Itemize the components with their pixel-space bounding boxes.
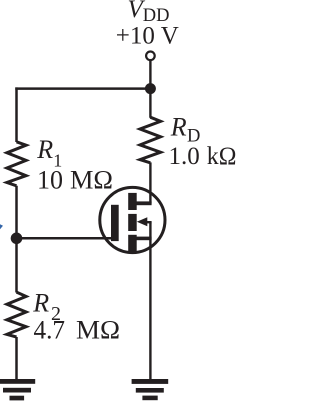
substrate arrow xyxy=(137,217,148,226)
svg-text:MΩ: MΩ xyxy=(76,316,120,345)
label VDD xyxy=(128,0,170,26)
wire top horizontal xyxy=(15,87,150,90)
wire arrow stub to source xyxy=(146,221,152,223)
svg-text:4.7: 4.7 xyxy=(34,316,66,345)
wire gate xyxy=(17,237,113,240)
svg-text:R: R xyxy=(170,113,187,142)
svg-text:1.0: 1.0 xyxy=(169,143,200,170)
wire left bottom vertical xyxy=(15,337,18,380)
svg-text:kΩ: kΩ xyxy=(207,143,236,170)
transistor Q1 channel top segment xyxy=(128,193,137,210)
label R2 value 4.7 Mohm xyxy=(34,316,121,345)
ground right xyxy=(132,379,169,400)
wire RD to drain xyxy=(149,162,151,203)
source connector xyxy=(137,237,152,241)
svg-text:10: 10 xyxy=(37,166,63,195)
resistor R2 xyxy=(7,292,26,337)
wire source vertical xyxy=(149,222,151,379)
wire left middle vertical xyxy=(15,186,18,293)
resistor R1 xyxy=(7,142,26,186)
label RD value 1.0 kohm xyxy=(169,143,237,170)
svg-text:MΩ: MΩ xyxy=(70,166,113,195)
label R1 xyxy=(36,135,62,170)
junction node gate xyxy=(11,233,23,245)
label R2 xyxy=(32,288,61,325)
junction node top xyxy=(145,83,156,94)
label VG fragment cut off at left edge xyxy=(0,224,3,229)
resistor RD xyxy=(140,117,161,163)
label RD xyxy=(170,113,201,147)
svg-text:R: R xyxy=(32,288,49,317)
svg-text:R: R xyxy=(36,135,53,164)
transistor Q1 channel bottom segment xyxy=(128,235,137,252)
ground left xyxy=(0,379,35,400)
svg-text:+10 V: +10 V xyxy=(116,23,179,50)
wire terminal to junction xyxy=(149,60,151,117)
transistor Q1 channel middle segment xyxy=(128,214,137,231)
terminal VDD supply xyxy=(146,52,155,61)
transistor Q1 gate bar xyxy=(111,205,119,241)
wire left top vertical xyxy=(15,87,18,142)
drain connector xyxy=(137,201,152,205)
transistor Q1 body circle xyxy=(100,187,165,252)
label R1 value 10 Mohm xyxy=(37,166,113,195)
